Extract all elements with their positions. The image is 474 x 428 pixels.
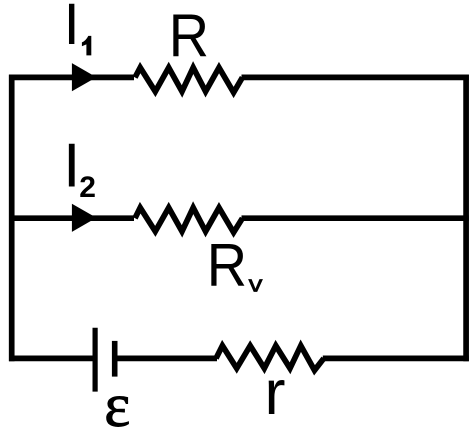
svg-text:R: R <box>169 3 209 70</box>
svg-text:v: v <box>249 272 263 297</box>
wire left vertical <box>9 75 15 362</box>
svg-text:r: r <box>265 358 286 428</box>
wire middle branch right segment <box>242 215 469 221</box>
current arrow I1 <box>72 63 97 91</box>
resistor R <box>135 68 242 93</box>
current arrow I2 <box>72 204 97 232</box>
resistor Rv <box>135 208 242 233</box>
svg-text:R: R <box>207 232 247 299</box>
svg-text:I: I <box>64 0 80 57</box>
wire bottom branch right segment <box>323 356 469 362</box>
svg-text:I: I <box>63 132 80 201</box>
battery positive plate (long) <box>92 328 97 392</box>
wire bottom branch middle segment <box>115 356 217 362</box>
wire top branch right segment <box>242 75 469 81</box>
svg-text:2: 2 <box>79 171 96 204</box>
wire top branch left segment <box>9 75 134 81</box>
resistor r <box>216 346 324 371</box>
wire right vertical <box>463 75 469 362</box>
wire bottom branch left segment <box>9 356 95 362</box>
wire middle branch left segment <box>9 215 134 221</box>
svg-text:ε: ε <box>104 372 130 428</box>
battery negative plate (short) <box>112 341 118 377</box>
